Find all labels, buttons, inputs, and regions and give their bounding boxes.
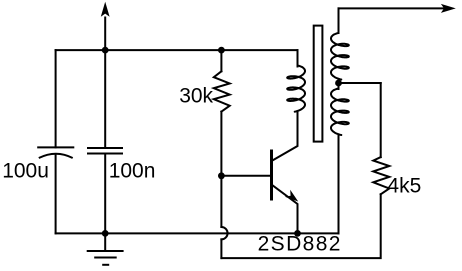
wire output horizontal [339,7,445,9]
svg-text:30k: 30k [179,85,213,108]
resistor 4k5 [373,157,389,194]
ground stem [104,233,106,251]
wire left rail lower [55,155,57,233]
node dot junction base [218,172,225,179]
node dot junction top-left [102,47,109,54]
node dot junction top 30k [218,47,225,54]
wire output vertical [338,8,340,33]
label 4k5 [387,175,421,198]
wire 100n upper [104,50,106,148]
svg-text:100u: 100u [2,160,49,183]
wire top rail [56,49,298,51]
capacitor 100n plate bottom [88,153,122,155]
capacitor 100n plate top [88,147,122,149]
emitter arrow [285,190,298,202]
capacitor 100u plate curved [39,154,73,158]
wire 30k top lead [220,50,222,71]
inductor secondary lower [331,89,349,136]
wire feedback bottom [221,194,380,258]
wire base [221,175,270,177]
wire hop over ground rail [221,227,227,239]
inductor primary [287,66,305,112]
label 2SD882 [258,233,342,256]
wire 30k lead below hop [220,239,222,258]
ground bar2 [95,257,116,259]
wire 100n lower [104,154,106,234]
transistor emitter [272,185,298,234]
transistor collector [272,112,298,162]
node dot junction emitter [294,230,301,237]
wire 4k5 top lead [380,83,382,157]
svg-text:4k5: 4k5 [387,175,421,198]
inductor secondary upper [331,33,349,80]
label 100u [2,160,49,183]
wire left rail upper [55,50,57,147]
wire ground rail [56,232,339,234]
label 30k [179,85,213,108]
wire top rail corner to primary [297,50,299,66]
node dot junction ground [102,230,109,237]
output arrow right [441,4,456,13]
transformer core [314,26,323,142]
wire secondary bottom [338,135,340,233]
transistor base bar [270,151,273,199]
capacitor 100u plate top [38,146,73,148]
ground bar1 [88,250,123,252]
wire 30k bottom lead [220,112,222,227]
node dot junction center tap [335,80,342,87]
wire secondary tap stub [338,79,340,89]
wire center tap [339,82,381,84]
wire Vcc stub [104,17,106,51]
svg-text:100n: 100n [109,160,156,183]
label 100n [109,160,156,183]
power arrow up [101,2,110,17]
ground bar3 [103,264,108,266]
resistor 30k [214,71,230,111]
